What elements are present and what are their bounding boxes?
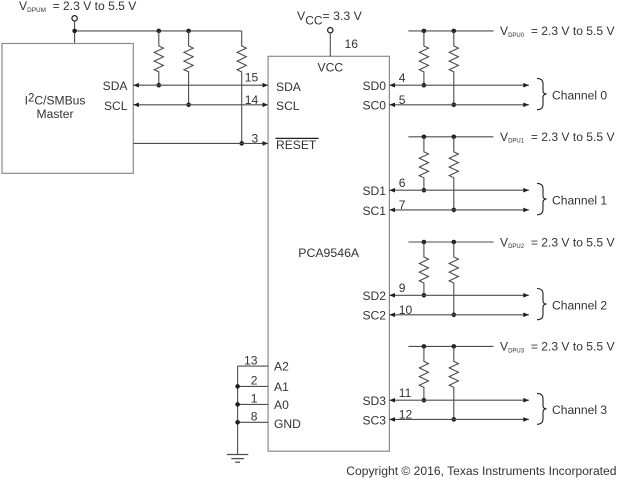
svg-text:7: 7 <box>399 198 406 212</box>
svg-text:Master: Master <box>37 107 74 121</box>
svg-text:16: 16 <box>345 37 359 51</box>
svg-text:SC1: SC1 <box>362 204 386 218</box>
svg-text:2: 2 <box>251 374 258 388</box>
svg-text:A0: A0 <box>274 398 289 412</box>
svg-text:SD2: SD2 <box>362 289 386 303</box>
svg-text:SDA: SDA <box>276 80 302 94</box>
svg-text:Channel 0: Channel 0 <box>552 88 607 102</box>
svg-text:A1: A1 <box>274 380 289 394</box>
svg-text:SC0: SC0 <box>362 99 386 113</box>
svg-text:SC3: SC3 <box>362 413 386 427</box>
svg-text:10: 10 <box>399 303 413 317</box>
svg-text:GND: GND <box>274 417 301 431</box>
svg-text:3: 3 <box>251 132 258 146</box>
svg-text:A2: A2 <box>274 360 289 374</box>
svg-text:6: 6 <box>399 176 406 190</box>
svg-text:Channel 1: Channel 1 <box>552 193 607 207</box>
svg-text:15: 15 <box>245 70 259 84</box>
svg-text:SD3: SD3 <box>362 394 386 408</box>
svg-text:VCC: VCC <box>318 60 344 74</box>
svg-text:SDA: SDA <box>103 79 129 93</box>
svg-text:I2C/SMBus: I2C/SMBus <box>25 92 86 107</box>
svg-text:8: 8 <box>251 410 258 424</box>
svg-text:Copyright © 2016, Texas Instru: Copyright © 2016, Texas Instruments Inco… <box>346 464 616 478</box>
svg-text:SCL: SCL <box>104 99 128 113</box>
svg-text:5: 5 <box>399 93 406 107</box>
svg-text:RESET: RESET <box>276 138 317 152</box>
svg-text:1: 1 <box>251 392 258 406</box>
svg-text:SC2: SC2 <box>362 309 386 323</box>
svg-text:12: 12 <box>399 407 413 421</box>
svg-text:13: 13 <box>244 353 258 367</box>
svg-text:9: 9 <box>399 281 406 295</box>
svg-text:4: 4 <box>399 71 406 85</box>
svg-text:PCA9546A: PCA9546A <box>298 246 360 260</box>
svg-text:14: 14 <box>245 93 259 107</box>
svg-text:11: 11 <box>399 386 412 400</box>
svg-text:SCL: SCL <box>276 99 300 113</box>
svg-text:SD0: SD0 <box>362 79 386 93</box>
svg-text:SD1: SD1 <box>362 184 386 198</box>
svg-text:Channel 2: Channel 2 <box>552 298 607 312</box>
svg-text:Channel 3: Channel 3 <box>552 403 607 417</box>
